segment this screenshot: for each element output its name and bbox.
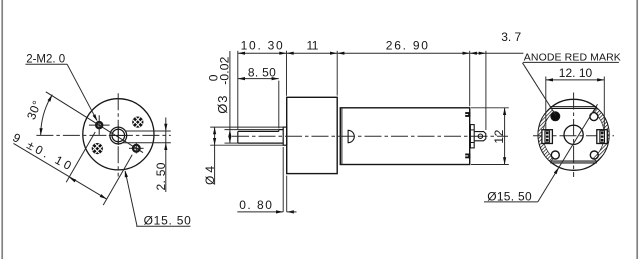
side view: motor front rim line [341,108,343,165]
ext line collar face [282,147,284,212]
dim Ø3 extension bottom [225,142,238,144]
rear view: top flat chord lines [550,106,596,108]
ext line gearbox-motor joint [336,51,338,96]
dim 8.50 arrow right [272,77,279,80]
side view: shaft tip face [237,131,239,143]
dim 12 arrow bottom [503,157,506,164]
ext line gearbox face lower [286,176,288,212]
dim 0.80 dimension line [237,211,283,213]
left view: output shaft circle Ø3 [112,129,125,142]
rear view: Ø15.50 leader line [538,104,598,202]
svg-text:2. 50: 2. 50 [154,162,168,190]
dim 12 dimension line [504,108,506,165]
left view: 2.50 upper extension line [125,130,171,132]
drawing frame right border [636,0,638,259]
svg-text:Ø4: Ø4 [203,163,217,185]
left view: screw hole hatched (bottom-left) [92,144,102,154]
dim Ø3 extension top [225,129,279,131]
dim top row dimension line [238,52,470,54]
side view: terminal bracket notch bottom [470,142,474,144]
side view: Ø4 collar boss [283,127,287,145]
side view: terminal tab [474,132,486,141]
svg-text:Ø3: Ø3 [215,94,230,113]
left view: output shaft collar circle Ø4 [110,127,127,144]
svg-text:8. 50: 8. 50 [248,65,276,79]
left view: M2 tapped hole (top-left) [96,122,102,128]
left view: Ø15.50 underline [136,225,190,227]
svg-text:2-M2. 0: 2-M2. 0 [26,53,65,65]
dim 12.10 extension right [603,77,605,130]
dim Ø3 dimension line [229,51,231,143]
left view: 2.50 arrow top (outside) [164,124,167,131]
drawing frame left border [1,0,3,259]
left view: screw hole hatched (top-right) [133,117,143,127]
left view: Ø15.50 leader line [125,171,137,226]
rear view: hatched cut band right [594,108,610,162]
dim 8.50 right extension line [278,81,280,129]
left view: shaft center cross horizontal [109,135,128,137]
left view: 2.50 dimension line [165,118,167,193]
svg-text:Ø15. 50: Ø15. 50 [144,214,192,228]
dim Ø4 extension top [210,126,283,128]
dim Ø4 dimension line [214,127,216,185]
left view: 2-M2.0 leader line [67,64,97,120]
dim 3.7 dimension line [470,52,524,54]
dim 12.10 arrow left [546,78,553,81]
svg-text:-0.02: -0.02 [218,56,232,84]
left view: 2-M2.0 underline [25,63,67,65]
dim 12.10 arrow right [597,78,604,81]
dim Ø3 arrow top [228,130,231,137]
dim 26.90 arrow right [463,52,470,55]
dim 12.10 dimension line [546,79,605,81]
left view: 30° angular dimension arc [41,95,53,136]
dim Ø4 arrow bottom [213,138,216,145]
rear view: anode red mark hole (filled) [551,112,560,121]
left view: 2.50 lower extension line [123,142,171,144]
rear view: vent hole top-right [590,113,598,121]
left view: 9±0.10 dimension line [14,143,107,199]
rear view: horizontal center line [533,135,614,137]
svg-text:10. 30: 10. 30 [241,39,285,53]
side view: end cap crimp tab top [465,112,470,117]
rear view: vent hole bottom-left [551,151,559,159]
dim 8.50 dimension line [238,78,279,80]
left view: shaft center cross vertical [117,126,119,145]
rear view: vertical center line [573,93,575,178]
dim 0.80 arrow right-pointing [276,210,283,213]
rear view: hatched cut band left [538,108,554,162]
left view: 2.50 arrow bottom (outside) [164,143,167,150]
side view: end cap crimp tab bottom [465,154,470,159]
rear view: motor can outer circle [538,99,609,170]
left view: 9±0.10 arrow upper-left [69,177,76,182]
side view: shaft flat top line [238,130,279,132]
svg-text:12: 12 [492,129,506,143]
left view: horizontal center line [36,134,170,136]
left view: 30-degree axis construction line through M2 holes [46,92,143,153]
side view: breathing hole D-detail on can [348,130,354,142]
side view: shaft flat step [278,130,280,132]
ext line motor end [469,51,471,106]
svg-text:11: 11 [307,39,319,53]
left view: 9±0.10 extension line from M2 hole [66,132,95,182]
ext line gearbox face [286,51,288,96]
left view: 30° arc arrow bottom [40,128,43,135]
dim 12 extension bottom [471,164,509,166]
dim 11/26.90 arrows at gearbox-motor joint [330,52,337,55]
rear view: bottom flat chord lines [550,160,596,162]
dim Ø4 arrow top [213,127,216,134]
ANODE label underline [523,61,619,63]
ANODE leader line to red mark [523,63,557,116]
side view: terminal bracket [470,125,474,148]
left view: M2 hole cross horizontal [89,124,110,126]
dim 3.7 arrow left [470,52,477,55]
svg-text:12. 10: 12. 10 [559,66,593,80]
side view: motor can rectangle [340,108,469,165]
ext line shaft tip [237,51,239,129]
dim 12 extension top [471,107,509,109]
dim 12 arrow top [503,108,506,115]
dim Ø3 arrow bottom [228,136,231,143]
left view: M2 hole cross vertical [98,115,100,135]
dim 10.30 arrow left [238,52,245,55]
svg-text:26. 90: 26. 90 [386,39,430,53]
rear view: vent hole bottom-right [590,151,598,159]
ext line terminal tip [485,51,487,130]
rear view: terminal left [542,130,553,144]
left view: 30° arc arrow top [48,95,53,102]
left view: pin hole (bottom-right) [133,145,140,152]
left view: pin hole cross horizontal [129,147,144,149]
side view: terminal hole [478,134,482,138]
dim 8.50 arrow left [238,77,245,80]
dim Ø4 extension bottom [210,144,283,146]
rear view: Ø15.50 underline [484,201,538,203]
dim 10.30/11 arrows at gearbox face [279,52,286,55]
rear view: terminal right [597,130,608,144]
side view: horizontal center line [232,135,508,137]
svg-text:0. 80: 0. 80 [239,198,273,212]
side view: shaft full-diameter top line [279,129,283,131]
dim 12.10 extension left [545,77,547,130]
dim 0.80 opposite arrow [287,210,294,213]
left view: pin hole cross vertical [135,143,137,154]
side view: gearbox body rectangle [287,97,338,173]
left view: 9±0.10 arrow lower-right [100,194,107,199]
left view: gearbox face outer circle Ø15.50 [83,99,154,170]
left view: vertical center line [117,93,119,176]
rear view: Ø15.50 leader arrowhead [554,167,559,174]
svg-text:3. 7: 3. 7 [501,30,521,44]
left view: 2-M2.0 leader arrowhead [93,114,98,121]
left view: Ø15.50 leader arrowhead [125,170,128,177]
rear view: bearing hub circle [564,125,583,144]
side view: terminal bracket notch top [470,129,474,131]
svg-text:Ø15. 50: Ø15. 50 [487,189,532,203]
left view: 9±0.10 extension line from pin hole [103,155,132,205]
side view: shaft bottom line [238,142,283,144]
